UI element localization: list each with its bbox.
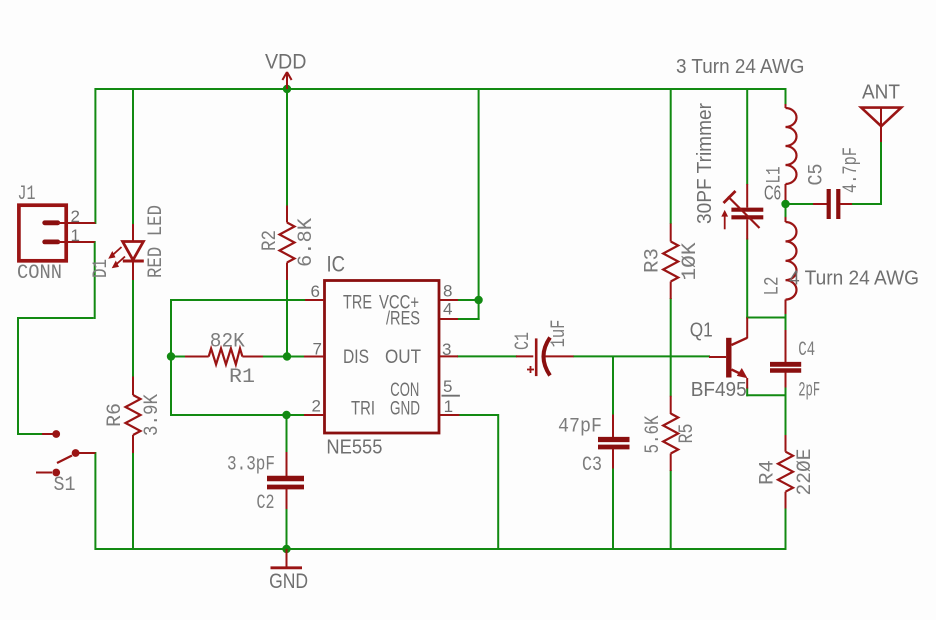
svg-text:3: 3 <box>442 340 451 359</box>
svg-text:5.6K: 5.6K <box>642 416 665 454</box>
svg-text:2: 2 <box>71 207 80 226</box>
svg-text:CONN: CONN <box>17 262 62 285</box>
svg-text:TRI: TRI <box>351 399 375 420</box>
svg-text:1: 1 <box>444 397 453 416</box>
svg-text:4.7pF: 4.7pF <box>840 147 863 193</box>
svg-text:4 Turn 24 AWG: 4 Turn 24 AWG <box>789 268 919 290</box>
svg-text:1ØK: 1ØK <box>679 243 702 281</box>
svg-text:R4: R4 <box>757 460 780 485</box>
svg-text:2pF: 2pF <box>798 380 820 403</box>
svg-text:3 Turn 24 AWG: 3 Turn 24 AWG <box>676 56 805 78</box>
svg-text:6.8K: 6.8K <box>295 218 318 267</box>
svg-text:L1: L1 <box>764 167 787 184</box>
svg-text:C3: C3 <box>582 454 602 477</box>
svg-text:C1: C1 <box>512 332 535 350</box>
svg-text:3.9K: 3.9K <box>141 394 164 436</box>
svg-text:C5: C5 <box>806 164 829 186</box>
svg-text:22ØE: 22ØE <box>794 449 817 496</box>
svg-text:R5: R5 <box>676 424 699 444</box>
svg-text:/RES: /RES <box>386 309 420 330</box>
svg-text:J1: J1 <box>18 183 36 206</box>
svg-text:R1: R1 <box>229 366 255 389</box>
svg-text:1uF: 1uF <box>548 320 571 348</box>
svg-text:C2: C2 <box>257 492 275 515</box>
svg-text:R2: R2 <box>259 230 282 251</box>
svg-text:1: 1 <box>71 226 80 245</box>
svg-text:D1: D1 <box>90 259 113 278</box>
svg-text:RED LED: RED LED <box>145 205 168 278</box>
svg-text:7: 7 <box>313 340 322 359</box>
svg-text:R6: R6 <box>104 403 127 427</box>
svg-text:82K: 82K <box>210 331 245 354</box>
svg-text:VDD: VDD <box>265 51 307 74</box>
svg-text:5: 5 <box>443 377 452 396</box>
svg-text:S1: S1 <box>54 474 76 497</box>
svg-text:OUT: OUT <box>385 347 421 368</box>
svg-text:8: 8 <box>443 282 452 301</box>
svg-text:BF495: BF495 <box>691 379 747 401</box>
svg-text:L2: L2 <box>762 277 785 296</box>
svg-text:ANT: ANT <box>862 82 900 104</box>
svg-text:4: 4 <box>443 300 452 319</box>
svg-text:3.3pF: 3.3pF <box>227 454 275 477</box>
svg-text:DIS: DIS <box>343 347 369 368</box>
svg-text:TRE: TRE <box>343 293 372 314</box>
svg-text:6: 6 <box>311 282 320 301</box>
svg-text:C4: C4 <box>798 339 815 362</box>
svg-text:30PF Trimmer: 30PF Trimmer <box>694 103 716 224</box>
svg-text:C6: C6 <box>764 183 781 205</box>
svg-text:GND: GND <box>390 399 420 420</box>
svg-text:Q1: Q1 <box>690 320 713 342</box>
svg-text:GND: GND <box>269 570 308 593</box>
svg-text:NE555: NE555 <box>326 437 382 459</box>
svg-text:47pF: 47pF <box>558 416 602 439</box>
svg-text:R3: R3 <box>642 248 665 273</box>
svg-text:2: 2 <box>312 397 321 416</box>
svg-text:IC: IC <box>327 252 346 277</box>
